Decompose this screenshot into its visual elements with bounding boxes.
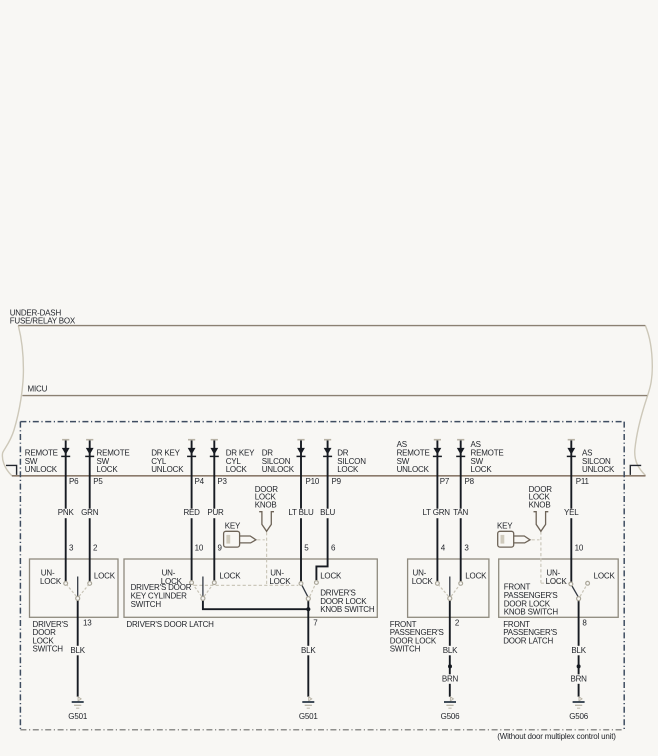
svg-text:LOCK: LOCK (594, 572, 616, 581)
svg-text:P10: P10 (306, 477, 320, 486)
svg-text:KNOB: KNOB (529, 500, 551, 509)
svg-text:2: 2 (93, 544, 98, 553)
svg-text:UNLOCK: UNLOCK (397, 465, 430, 474)
svg-text:LOCK: LOCK (546, 577, 568, 586)
svg-text:4: 4 (441, 544, 446, 553)
svg-text:MICU: MICU (28, 385, 48, 394)
svg-text:10: 10 (575, 544, 584, 553)
svg-text:P4: P4 (195, 477, 205, 486)
svg-text:P3: P3 (217, 477, 227, 486)
svg-text:LOCK: LOCK (226, 465, 248, 474)
svg-text:5: 5 (304, 544, 309, 553)
svg-text:LOCK: LOCK (97, 465, 119, 474)
svg-text:G506: G506 (569, 712, 589, 721)
svg-text:13: 13 (83, 619, 92, 628)
svg-text:TAN: TAN (453, 508, 468, 517)
svg-text:P5: P5 (93, 477, 103, 486)
svg-text:(Without door multiplex contro: (Without door multiplex control unit) (497, 732, 616, 741)
svg-text:PUR: PUR (207, 508, 224, 517)
svg-text:8: 8 (582, 619, 587, 628)
svg-text:UNLOCK: UNLOCK (25, 465, 58, 474)
svg-text:GRN: GRN (81, 508, 99, 517)
svg-text:BLK: BLK (443, 646, 458, 655)
svg-text:BLK: BLK (70, 646, 85, 655)
svg-text:9: 9 (218, 544, 223, 553)
svg-text:P8: P8 (465, 477, 475, 486)
svg-text:LT BLU: LT BLU (288, 508, 314, 517)
svg-text:UNLOCK: UNLOCK (582, 465, 615, 474)
svg-text:DOOR LATCH: DOOR LATCH (503, 636, 553, 645)
svg-text:UNLOCK: UNLOCK (151, 465, 184, 474)
svg-text:G501: G501 (299, 712, 319, 721)
svg-text:LOCK: LOCK (269, 577, 291, 586)
svg-text:SWITCH: SWITCH (390, 645, 421, 654)
svg-text:BLK: BLK (571, 646, 586, 655)
svg-text:LOCK: LOCK (94, 572, 116, 581)
svg-text:P11: P11 (576, 477, 590, 486)
svg-text:KEY: KEY (225, 521, 241, 530)
svg-text:RED: RED (183, 508, 200, 517)
svg-text:LOCK: LOCK (337, 465, 359, 474)
svg-text:KNOB SWITCH: KNOB SWITCH (504, 608, 559, 617)
svg-text:LOCK: LOCK (219, 572, 241, 581)
svg-text:LOCK: LOCK (412, 577, 434, 586)
svg-text:KNOB: KNOB (255, 500, 277, 509)
svg-text:LOCK: LOCK (471, 465, 493, 474)
svg-text:LOCK: LOCK (465, 572, 487, 581)
svg-text:YEL: YEL (564, 508, 579, 517)
svg-text:BLK: BLK (301, 646, 316, 655)
svg-text:3: 3 (464, 544, 469, 553)
svg-text:3: 3 (69, 544, 74, 553)
svg-text:KNOB SWITCH: KNOB SWITCH (320, 605, 375, 614)
svg-text:G501: G501 (68, 712, 88, 721)
svg-text:LT GRN: LT GRN (422, 508, 450, 517)
svg-text:DRIVER'S DOOR LATCH: DRIVER'S DOOR LATCH (126, 620, 214, 629)
svg-text:BRN: BRN (442, 675, 459, 684)
svg-text:FUSE/RELAY BOX: FUSE/RELAY BOX (10, 317, 76, 326)
svg-text:KEY: KEY (497, 521, 513, 530)
svg-text:SWITCH: SWITCH (131, 600, 162, 609)
svg-text:UNLOCK: UNLOCK (262, 465, 295, 474)
svg-text:P7: P7 (440, 477, 450, 486)
svg-text:P6: P6 (69, 477, 79, 486)
svg-text:BRN: BRN (570, 675, 587, 684)
svg-text:2: 2 (455, 619, 460, 628)
svg-text:BLU: BLU (320, 508, 335, 517)
svg-text:SWITCH: SWITCH (33, 645, 64, 654)
svg-text:PNK: PNK (58, 508, 75, 517)
svg-text:LOCK: LOCK (40, 577, 62, 586)
svg-text:LOCK: LOCK (320, 572, 342, 581)
svg-text:P9: P9 (332, 477, 342, 486)
svg-text:6: 6 (331, 544, 336, 553)
svg-text:10: 10 (195, 544, 204, 553)
svg-text:G506: G506 (441, 712, 461, 721)
svg-text:7: 7 (313, 619, 318, 628)
